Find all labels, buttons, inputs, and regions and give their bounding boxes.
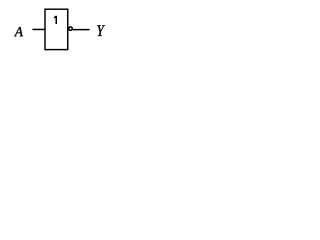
node Y (output net label, italic serif glyph path) [97,25,105,36]
inverter gate U1 body (IEC rectangle) [45,9,68,49]
wire bubble to output Y [73,29,90,31]
node A (input net label, italic serif glyph path) [14,27,23,36]
inversion bubble at output pin [69,27,73,31]
gate function label "1" [54,16,57,24]
wire input A to gate [32,28,45,30]
